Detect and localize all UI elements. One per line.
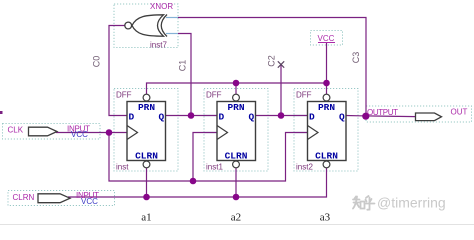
svg-text:C0: C0 <box>92 56 102 68</box>
svg-text:CLRN: CLRN <box>225 151 248 162</box>
svg-text:DFF: DFF <box>206 91 222 100</box>
svg-text:@timerring: @timerring <box>377 195 446 211</box>
svg-text:VCC: VCC <box>318 34 335 43</box>
svg-text:PRN: PRN <box>318 102 335 113</box>
svg-text:OUTPUT: OUTPUT <box>367 108 398 117</box>
svg-text:D: D <box>219 112 225 123</box>
svg-text:a1: a1 <box>141 212 151 224</box>
svg-text:PRN: PRN <box>227 102 244 113</box>
svg-text:CLRN: CLRN <box>13 193 35 202</box>
svg-text:VCC: VCC <box>81 197 98 206</box>
svg-text:D: D <box>129 112 135 123</box>
svg-text:inst2: inst2 <box>296 163 313 172</box>
svg-text:D: D <box>309 112 315 123</box>
svg-text:inst: inst <box>116 163 129 172</box>
svg-text:C3: C3 <box>351 52 361 64</box>
svg-text:C1: C1 <box>178 60 188 72</box>
svg-text:Q: Q <box>339 112 345 123</box>
svg-text:CLRN: CLRN <box>315 151 338 162</box>
svg-text:Q: Q <box>249 112 255 123</box>
svg-text:CLK: CLK <box>8 126 24 135</box>
svg-text:Q: Q <box>159 112 165 123</box>
svg-text:inst7: inst7 <box>150 41 167 50</box>
svg-text:PRN: PRN <box>138 102 155 113</box>
svg-text:CLRN: CLRN <box>135 151 158 162</box>
svg-text:C2: C2 <box>267 55 277 67</box>
svg-text:a2: a2 <box>231 212 241 224</box>
svg-text:XNOR: XNOR <box>150 2 173 11</box>
svg-text:a3: a3 <box>320 212 331 224</box>
svg-text:DFF: DFF <box>116 91 132 100</box>
svg-text:VCC: VCC <box>71 130 88 139</box>
svg-text:DFF: DFF <box>296 91 312 100</box>
svg-text:OUT: OUT <box>451 108 468 117</box>
svg-text:inst1: inst1 <box>206 163 223 172</box>
